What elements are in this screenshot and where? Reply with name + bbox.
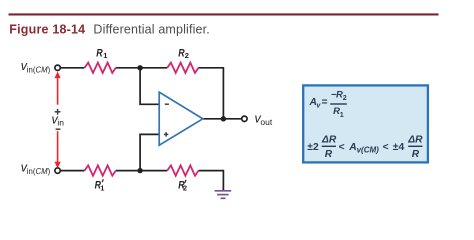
svg-text:2: 2 [343,93,347,102]
svg-text:2: 2 [183,183,187,192]
svg-text:Figure 18-14: Figure 18-14 [9,22,85,36]
svg-text:1: 1 [100,183,104,192]
svg-text:R: R [178,48,184,60]
svg-text:R: R [96,48,102,60]
svg-text:±4: ±4 [393,142,405,153]
svg-text:1: 1 [340,110,344,119]
svg-text:1: 1 [103,51,107,60]
svg-text:in(CM): in(CM) [27,65,51,74]
svg-text:ΔR: ΔR [407,134,423,145]
svg-text:Differential amplifier.: Differential amplifier. [93,22,209,36]
svg-text:in(CM): in(CM) [27,167,51,176]
svg-text:R: R [412,149,420,160]
svg-text:<: < [383,142,389,153]
svg-text:in: in [57,118,64,128]
svg-text:R: R [325,149,333,160]
svg-text:±2: ±2 [307,142,319,153]
svg-text:ΔR: ΔR [321,134,337,145]
svg-text:out: out [260,117,272,127]
svg-text:A: A [348,142,356,153]
svg-text:2: 2 [185,51,189,60]
svg-text:<: < [339,142,345,153]
svg-text:=: = [322,97,328,108]
svg-text:v(CM): v(CM) [357,145,380,154]
